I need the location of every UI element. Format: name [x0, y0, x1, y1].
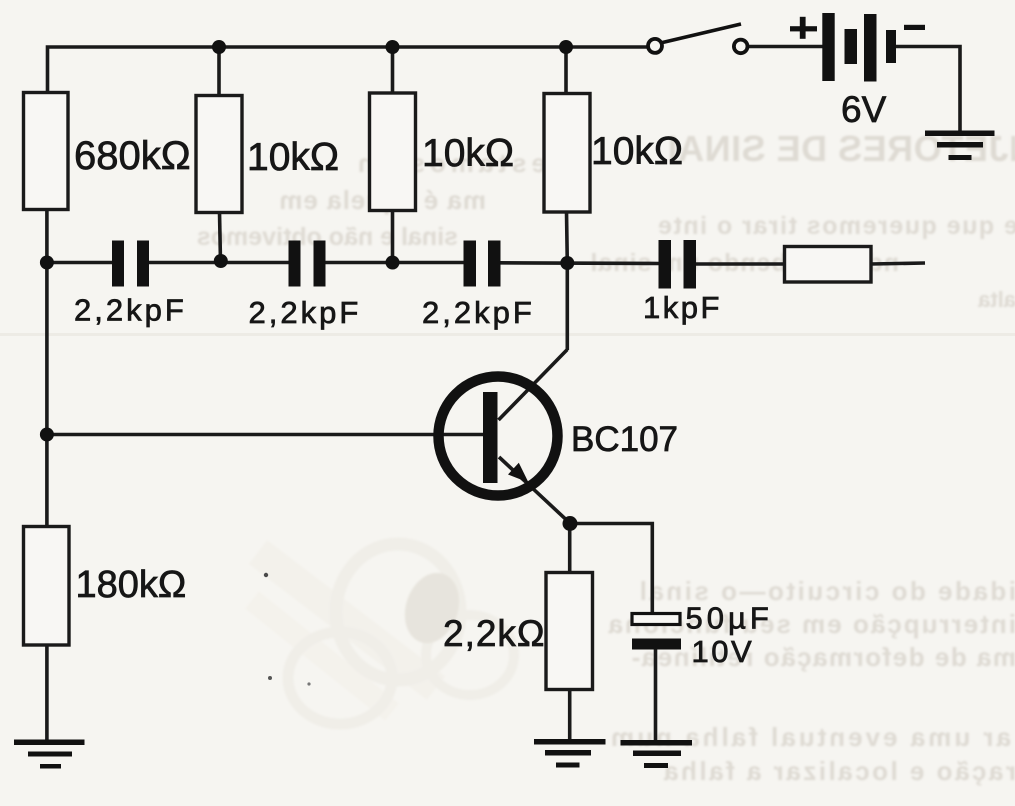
wire: 10k #1 top lead — [217, 47, 221, 96]
node cap row 2 — [214, 254, 228, 268]
battery minus sign — [904, 25, 925, 30]
wire: cap row segment C1-C2 — [148, 261, 290, 265]
resistor 180k — [24, 527, 70, 646]
svg-text:10kΩ: 10kΩ — [422, 132, 514, 175]
switch S1 lever — [663, 24, 742, 43]
svg-text:2,2kΩ: 2,2kΩ — [443, 613, 546, 654]
switch S1 throw circle — [734, 40, 748, 54]
transistor Q1 base bar — [483, 392, 498, 483]
svg-text:180kΩ: 180kΩ — [76, 564, 187, 606]
capacitor C3 2.2kpF plates — [464, 241, 501, 287]
resistor 10k #2 — [370, 93, 416, 211]
transistor Q1 emitter arrowhead — [508, 463, 529, 483]
wire: base horizontal — [47, 433, 484, 437]
svg-text:50µF: 50µF — [686, 601, 773, 636]
node top rail 3 — [559, 40, 573, 54]
resistor 680k — [24, 93, 69, 210]
resistor output (horizontal) — [785, 247, 872, 283]
svg-text:ar uma eventual falha num: ar uma eventual falha num — [608, 722, 1011, 752]
wire: 2.2k bottom to ground — [568, 689, 572, 741]
wire: 10k #3 bottom lead — [565, 212, 569, 263]
wire: output lead after resistor — [871, 263, 926, 264]
wire: battery to right corner and down to ground — [895, 47, 960, 133]
svg-text:680kΩ: 680kΩ — [74, 134, 191, 178]
svg-text:e que queremos tirar o inte: e que queremos tirar o inte — [657, 212, 1015, 240]
wire: 10k #1 bottom lead — [220, 212, 221, 262]
node cap row 4 — [560, 256, 574, 270]
capacitor C1 2.2kpF plates — [112, 241, 149, 287]
ghost picture show-through (reverse page) — [252, 544, 514, 724]
wire: left column 680k bottom to 180k top — [45, 209, 49, 527]
svg-text:10kΩ: 10kΩ — [591, 130, 683, 173]
ground under 50uF — [621, 740, 693, 768]
wire: 10k #2 top lead — [391, 47, 395, 94]
svg-text:2,2kpF: 2,2kpF — [422, 295, 535, 330]
wire: collector vertical — [565, 263, 569, 350]
svg-text:2,2kpF: 2,2kpF — [249, 295, 362, 330]
svg-text:1kpF: 1kpF — [643, 290, 722, 325]
svg-text:ma de deformação retilínea-: ma de deformação retilínea- — [630, 642, 1015, 672]
node cap row 3 — [386, 256, 400, 270]
wire: cap row segment C4-output resistor — [695, 262, 785, 266]
transistor Q1 BC107 body circle — [439, 377, 558, 496]
svg-text:alta: alta — [977, 287, 1015, 312]
node top rail 2 — [386, 40, 400, 54]
svg-text:10V: 10V — [692, 634, 755, 669]
ground under battery — [925, 131, 995, 161]
electrolytic cap 50uF top plate (hollow) — [632, 614, 680, 625]
wire: emitter node right and down to 50uF — [570, 524, 652, 615]
capacitor C2 2.2kpF plates — [289, 241, 326, 287]
electrolytic cap 50uF bottom plate (solid) — [632, 639, 681, 650]
svg-text:6V: 6V — [841, 89, 887, 130]
wire: collector diagonal into transistor — [499, 350, 568, 421]
wire: cap row segment C2-C3 — [325, 261, 465, 265]
svg-text:10kΩ: 10kΩ — [247, 136, 339, 179]
svg-text:BC107: BC107 — [571, 420, 678, 459]
capacitor C4 1kpF plates — [659, 240, 697, 289]
battery B1 plate long 1 — [822, 13, 834, 81]
battery B1 plate long 2 — [864, 14, 877, 82]
node emitter junction — [563, 516, 578, 531]
crease line — [0, 333, 1015, 336]
resistor 10k #1 — [196, 96, 242, 213]
resistor 2.2k — [546, 573, 593, 690]
wire: switch to battery — [748, 45, 823, 49]
svg-text:sinal e não obtivemos: sinal e não obtivemos — [197, 223, 458, 251]
wire: top rail — [48, 47, 648, 92]
wire: cap row segment node1-C1 — [47, 261, 113, 265]
battery plus sign — [790, 17, 817, 39]
node cap row 1 — [40, 256, 54, 270]
wire: 10k #3 top lead — [564, 47, 568, 94]
wire: 50uF bottom to ground — [654, 649, 658, 742]
battery B1 plate short 1 — [845, 29, 858, 64]
resistor 10k #3 — [544, 94, 590, 213]
wire: 10k #2 bottom lead — [391, 210, 395, 263]
ground under 180k — [14, 740, 85, 769]
node top rail 1 — [212, 40, 226, 54]
svg-text:ração e localizar a falha: ração e localizar a falha — [662, 756, 1015, 786]
wire: 180k bottom to ground — [45, 645, 49, 741]
battery B1 plate short 2 — [886, 30, 896, 63]
svg-text:2,2kpF: 2,2kpF — [74, 293, 187, 328]
node base junction — [40, 428, 54, 442]
specks — [264, 573, 268, 577]
wire: emitter diagonal to node — [499, 457, 570, 524]
switch S1 pole circle — [648, 39, 662, 53]
wire: emitter node down to 2.2k — [568, 524, 572, 574]
ground under 2.2k — [534, 739, 606, 768]
wire: cap row segment C3-C4 — [500, 261, 660, 265]
